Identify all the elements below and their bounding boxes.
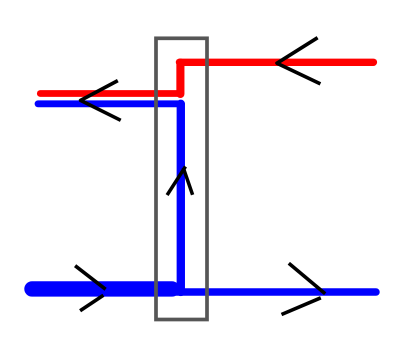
red pipe: vertical jog segment [176,63,184,94]
red pipe: lower-left horizontal segment [40,90,180,97]
arrow 3: up-pointing flow arrow on vertical blue pipe (left arm) [167,167,185,196]
blue pipe: bottom-right horizontal segment [174,288,376,296]
arrow 5: right-pointing flow arrow on bottom-right blue pipe (upper arm) [289,263,325,293]
arrow 5: right-pointing flow arrow on bottom-right blue pipe (lower arm) [282,298,321,315]
blue pipe: bottom-left thick horizontal segment [32,281,172,296]
blue pipe: vertical segment [177,104,185,292]
arrow 4: right-pointing flow arrow on bottom-left blue pipe (upper arm) [75,266,106,290]
arrow 4: right-pointing flow arrow on bottom-left blue pipe (lower arm) [80,295,103,310]
arrow 2: left-pointing flow arrow on left red/blue pipes [81,81,121,121]
arrow 3: up-pointing flow arrow on vertical blue pipe (right arm) [183,168,192,195]
box (control volume rectangle, drawn over the pipes) [156,38,207,319]
red pipe: top horizontal segment [180,59,374,66]
arrow 1: left-pointing flow arrow on top red pipe [277,38,320,84]
blue pipe: upper-left horizontal segment [38,100,182,107]
